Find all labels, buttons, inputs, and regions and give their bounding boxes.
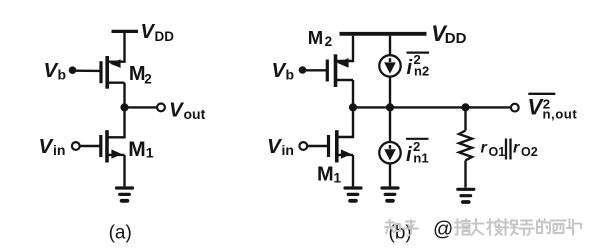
ground under resistor (b): [458, 189, 474, 202]
wire VDD to current source In2 (b): [389, 36, 391, 56]
wire In2 to node (b): [389, 77, 391, 104]
watermark zhihu: [385, 219, 581, 236]
svg-text:out: out: [184, 106, 206, 122]
svg-text:DD: DD: [155, 29, 175, 44]
svg-text:O2: O2: [521, 145, 538, 159]
node junction dot center (b): [386, 103, 394, 111]
ground (a): [117, 188, 133, 201]
svg-text:n,out: n,out: [543, 107, 578, 122]
node junction dot left (b): [349, 103, 357, 111]
label In1 squared with overline (b): [406, 139, 429, 166]
svg-text:in: in: [53, 142, 65, 158]
svg-text:n2: n2: [414, 64, 429, 79]
power rail VDD (b): [340, 32, 427, 36]
wire Vin to gate (a): [80, 145, 100, 147]
svg-text:i: i: [407, 57, 413, 79]
net label Vb (b): [272, 59, 295, 83]
transistor M2 PMOS (a): [101, 56, 125, 89]
svg-text:1: 1: [334, 171, 342, 186]
node junction dot resistor (b): [461, 103, 469, 111]
svg-text:1: 1: [146, 145, 154, 161]
wire resistor to ground (b): [464, 160, 466, 187]
wire In1 to ground (b): [389, 163, 391, 186]
wire node to current source In1 (b): [389, 110, 391, 142]
label M2 (b): [308, 27, 332, 49]
wire Vb to gate (a): [74, 69, 100, 72]
ground under In1 (b): [382, 188, 398, 201]
node wire output row (b): [353, 106, 511, 108]
wire node to M1 drain (a): [107, 110, 125, 137]
transistor M1 NMOS (a): [101, 130, 125, 162]
wire VDD to M2 source (b): [336, 36, 354, 61]
wire node to Vout terminal (a): [128, 106, 157, 108]
svg-text:DD: DD: [445, 30, 467, 47]
current source In1 (b): [379, 142, 400, 163]
wire node to resistor (b): [464, 110, 466, 131]
wire Vb to gate (b): [304, 69, 326, 71]
label In2 squared with overline (b): [407, 52, 430, 79]
wire VDD to M2 source (a): [109, 33, 125, 62]
net label Vn,out squared (b): [528, 95, 578, 122]
svg-text:M: M: [308, 27, 323, 48]
label M1 (b): [317, 164, 342, 186]
wire M2 drain to node (a): [123, 83, 125, 104]
overline of Vn,out (b): [528, 93, 555, 95]
svg-text:in: in: [282, 142, 294, 158]
svg-text:b: b: [58, 67, 67, 83]
svg-text:i: i: [406, 144, 412, 166]
node Vb dot (b): [299, 66, 307, 74]
net label Vb (a): [44, 59, 67, 83]
ground under M1 (b): [345, 188, 361, 201]
svg-text:(a): (a): [109, 223, 132, 244]
svg-text:r: r: [513, 140, 520, 157]
net label Vout (a): [169, 99, 206, 123]
svg-text:r: r: [481, 140, 488, 157]
terminal Vnout open circle (b): [511, 104, 519, 112]
power rail VDD (a): [112, 30, 139, 33]
svg-text:n1: n1: [413, 151, 428, 166]
transistor M2 PMOS (b): [327, 54, 353, 87]
resistor rO1||rO2 (b): [459, 131, 472, 161]
net label VDD (a): [141, 21, 175, 44]
wire M1 source to ground (a): [123, 155, 125, 187]
svg-text:V: V: [141, 21, 156, 43]
wire Vin to gate (b): [307, 145, 327, 147]
terminal Vin open circle (a): [72, 142, 80, 150]
wire node to M1 drain (b): [337, 110, 353, 137]
net label VDD (b): [431, 21, 466, 47]
label M2 (a): [129, 63, 152, 86]
svg-text:M: M: [128, 138, 146, 161]
net label Vin (b): [267, 135, 294, 158]
node Vout junction (a): [120, 103, 128, 111]
transistor M1 NMOS (b): [329, 130, 354, 162]
wire M1 source to ground (b): [352, 155, 354, 187]
terminal Vin open circle (b): [299, 142, 307, 150]
svg-text:O1: O1: [489, 145, 506, 159]
value label rO1||rO2 (b): [481, 140, 538, 160]
svg-text:@: @: [433, 218, 453, 240]
net label Vin (a): [39, 135, 66, 158]
terminal Vout open circle (a): [157, 104, 165, 112]
wire M2 drain to node (b): [352, 80, 354, 104]
node Vb dot (a): [69, 66, 77, 74]
svg-text:M: M: [129, 63, 146, 85]
svg-text:b: b: [286, 67, 295, 83]
svg-text:M: M: [317, 164, 334, 186]
svg-text:2: 2: [144, 71, 152, 86]
label M1 (a): [128, 138, 154, 161]
svg-text:2: 2: [325, 34, 333, 49]
current source In2 (b): [379, 55, 400, 76]
